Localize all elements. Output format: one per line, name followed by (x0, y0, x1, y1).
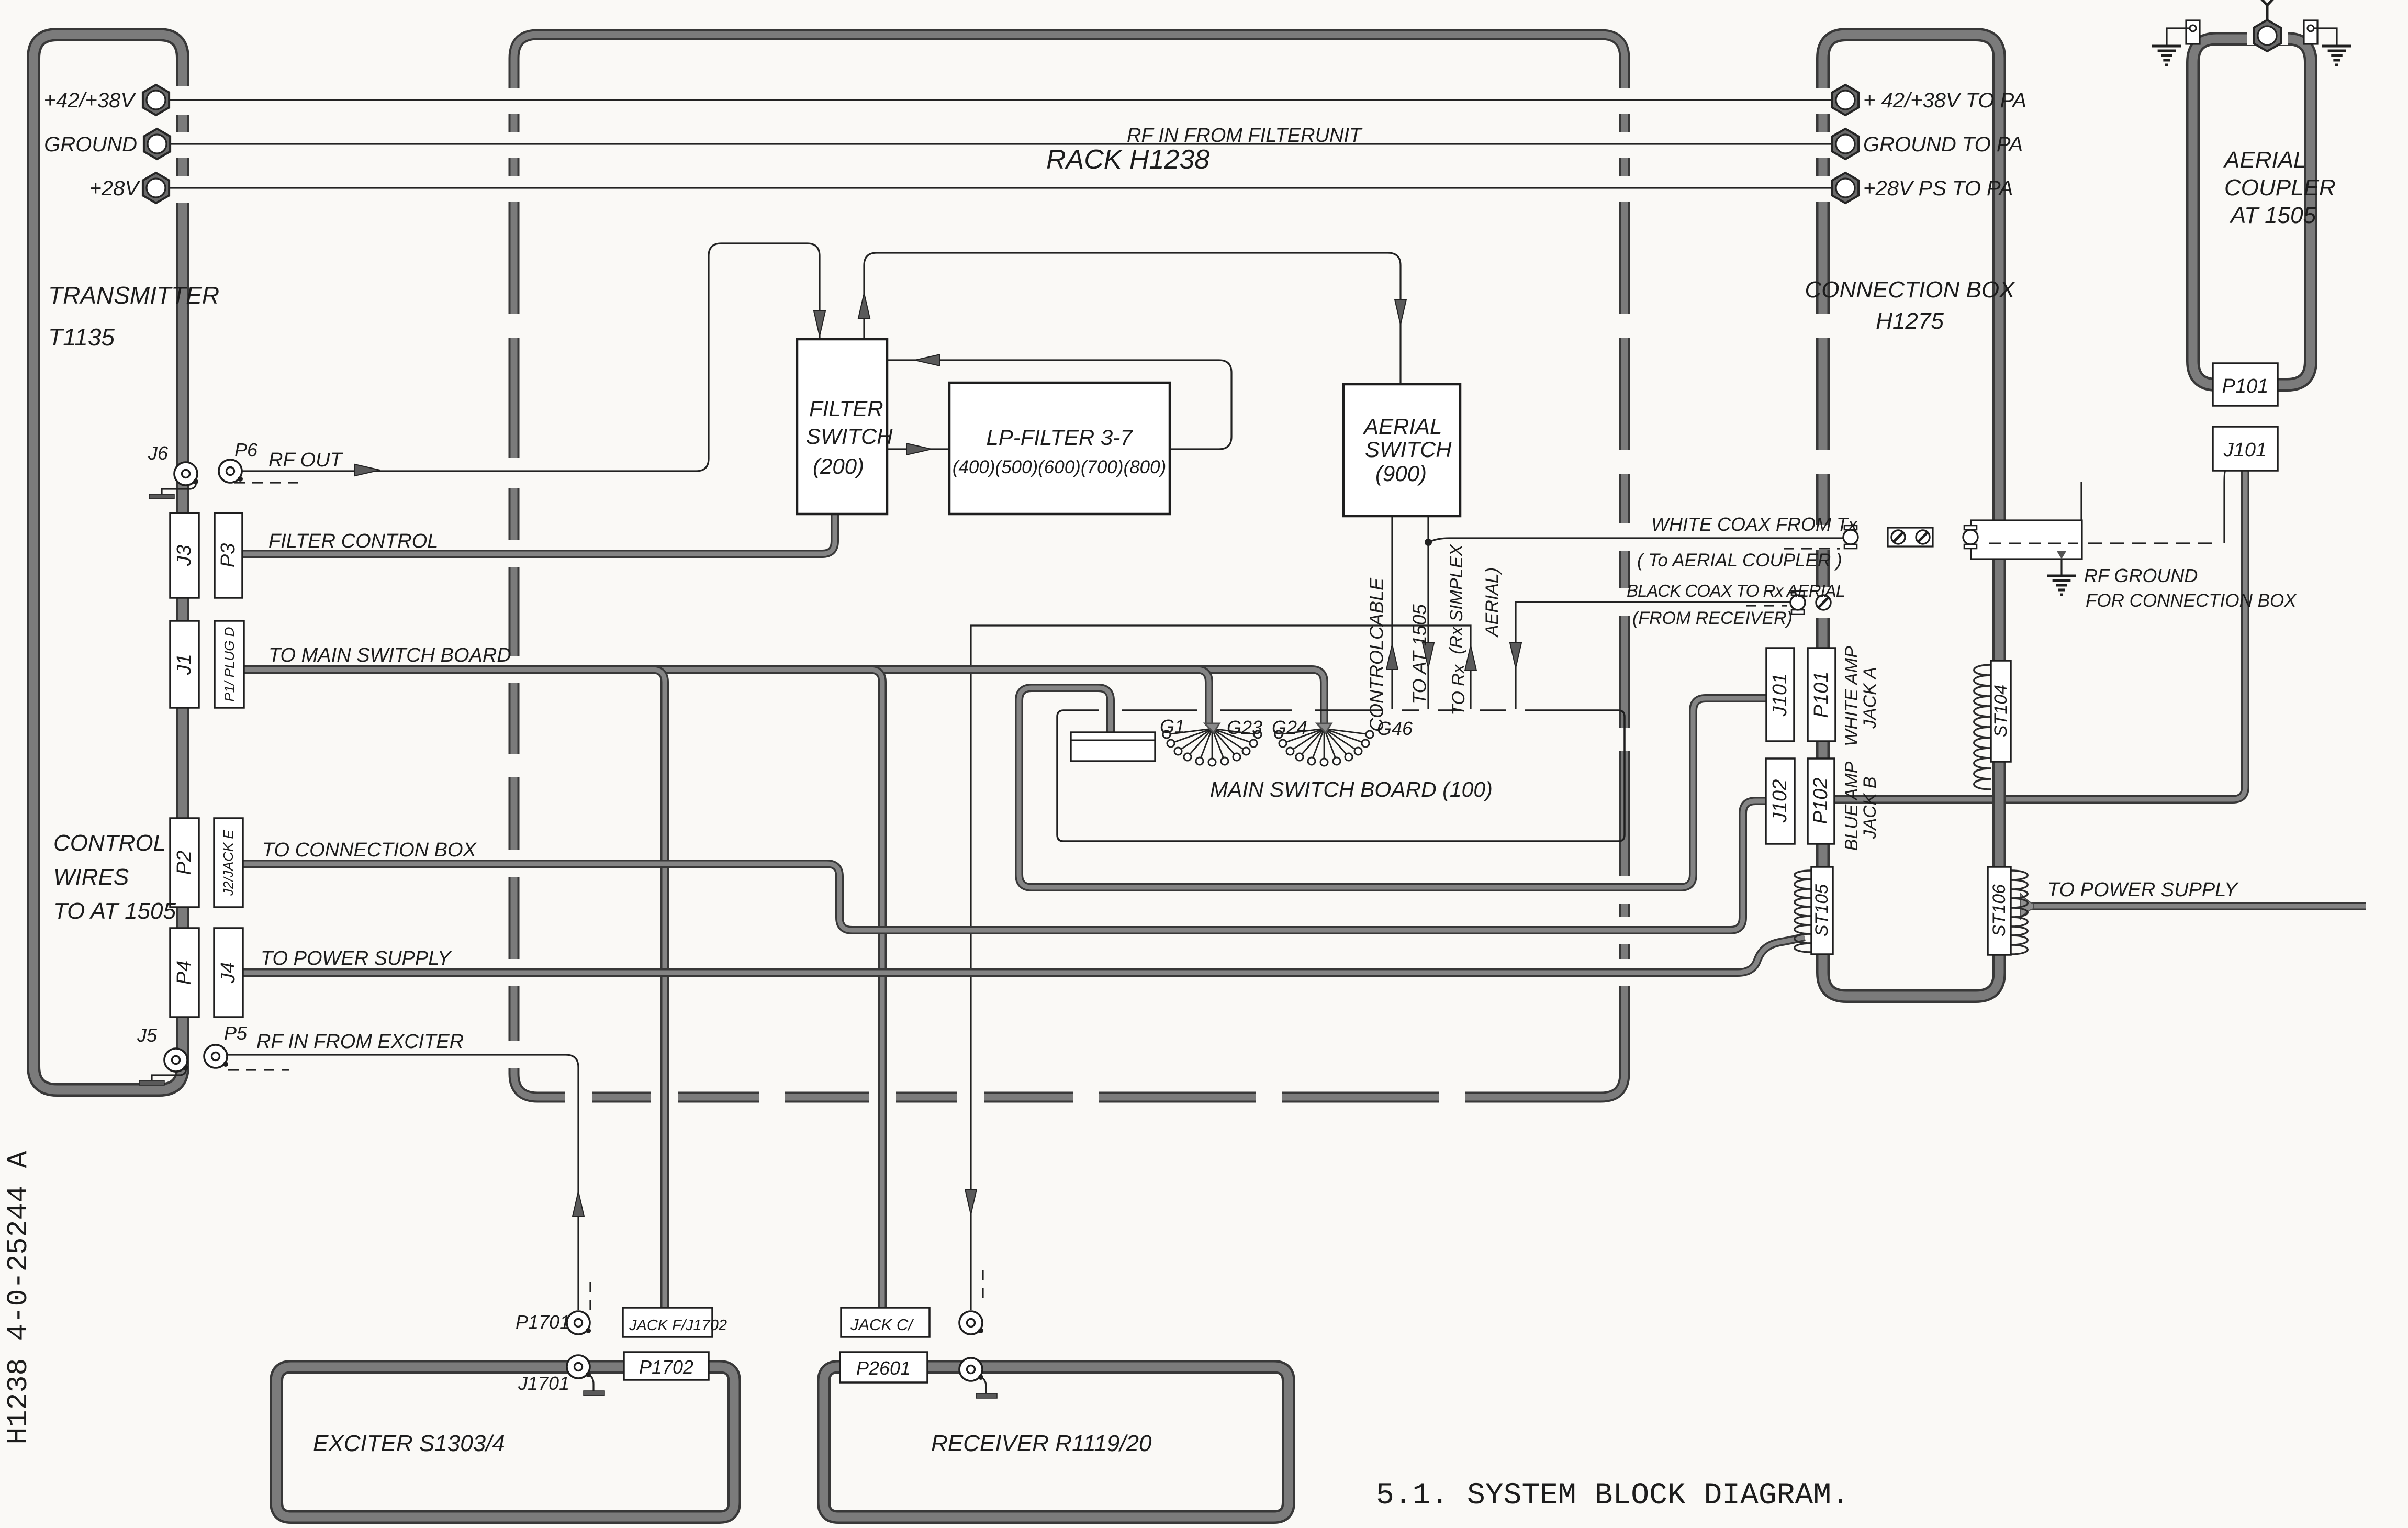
mounting tab right with ground (2304, 20, 2351, 65)
node fan-out G1-G23 (1160, 716, 1262, 766)
wire GROUND power line (163, 143, 1838, 144)
connector P1701 coax (567, 1311, 591, 1334)
svg-text:RF OUT: RF OUT (268, 449, 344, 471)
svg-text:J102: J102 (1769, 779, 1791, 823)
svg-text:SWITCH: SWITCH (1365, 437, 1452, 462)
svg-text:P6: P6 (234, 439, 258, 461)
svg-text:J3: J3 (173, 545, 195, 566)
label TO Rx (rotated) (1449, 664, 1469, 716)
connector J6 coax with ground (149, 462, 198, 499)
mounting tab left with ground (2152, 20, 2200, 65)
connection box H1275 bottom border (1823, 973, 1999, 996)
wire filter switch to LP-filter input (888, 443, 948, 455)
exciter box S1303/4 outline (276, 1367, 734, 1517)
wire dashed stub white coax (To AERIAL COUPLER) (1784, 548, 1840, 549)
connector coax flange on box wall (1963, 526, 1978, 549)
connector P102 (1808, 759, 1834, 844)
svg-text:P3: P3 (217, 543, 239, 567)
svg-text:GROUND TO PA: GROUND TO PA (1863, 133, 2023, 156)
svg-text:(FROM RECEIVER): (FROM RECEIVER) (1632, 608, 1793, 628)
wire dashed stub black coax (FROM RECEIVER) (1746, 605, 1787, 606)
connector J101 (1766, 648, 1794, 741)
connector J5 coax with ground (139, 1049, 188, 1085)
connector nut GROUND TO PA (1832, 129, 1858, 159)
connector receiver plug coax (959, 1311, 983, 1334)
svg-text:TRANSMITTER: TRANSMITTER (48, 282, 219, 309)
svg-text:(400)(500)(600)(700)(800): (400)(500)(600)(700)(800) (953, 457, 1167, 477)
label P6 RF OUT (234, 439, 344, 471)
connector J1 (170, 621, 199, 708)
connection box H1275 right border (1992, 58, 2006, 973)
svg-text:P1701: P1701 (516, 1311, 570, 1333)
svg-text:TO Rx: TO Rx (1449, 664, 1469, 716)
svg-text:ST105: ST105 (1812, 884, 1832, 936)
svg-text:J6: J6 (148, 442, 169, 464)
svg-text:WIRES: WIRES (53, 864, 129, 890)
svg-text:( To AERIAL COUPLER ): ( To AERIAL COUPLER ) (1637, 550, 1842, 571)
wire TO POWER SUPPLY from J4 to ST105 coil (243, 937, 1805, 973)
wire +42/+38V power line (163, 99, 1838, 101)
connector JACK C (841, 1308, 929, 1337)
svg-text:J101: J101 (1769, 673, 1791, 717)
svg-text:WHITE COAX FROM Tx: WHITE COAX FROM Tx (1651, 514, 1858, 535)
svg-text:SWITCH: SWITCH (806, 424, 893, 449)
svg-text:H1238 4-0-25244 A: H1238 4-0-25244 A (2, 1151, 35, 1444)
label TRANSMITTER T1135 (48, 282, 219, 351)
svg-text:P2601: P2601 (856, 1357, 911, 1379)
svg-text:+28V PS TO PA: +28V PS TO PA (1863, 177, 2013, 200)
connector nut +42/+38V (143, 85, 169, 115)
connection box H1275 top border (1823, 35, 1999, 58)
label CONTROL WIRES TO AT1505 (53, 830, 176, 924)
svg-text:FILTER: FILTER (809, 396, 883, 421)
label TO CONNECTION BOX (262, 839, 477, 861)
svg-text:COUPLER: COUPLER (2224, 175, 2336, 200)
svg-text:P4: P4 (173, 961, 195, 985)
label +42/+38V TO PA (1863, 89, 2026, 112)
label RF IN FROM FILTERUNIT (1127, 125, 1363, 147)
label RACK H1238 (1046, 144, 1209, 175)
main switch board (100) outline (1057, 710, 1625, 841)
connector P6 coax (219, 460, 243, 483)
svg-text:JACK C/: JACK C/ (850, 1315, 914, 1334)
label BLACK COAX TO Rx AERIAL (FROM RECEIVER) (1627, 581, 1845, 628)
svg-text:RECEIVER R1119/20: RECEIVER R1119/20 (931, 1431, 1152, 1456)
wire P102 to ST105 link (1817, 843, 1825, 868)
wire blue coax P102 to aerial coupler J101 (1833, 470, 2245, 799)
svg-text:P2: P2 (173, 851, 195, 875)
component feedthrough assembly (1971, 520, 2082, 559)
connector P101 (1808, 648, 1835, 741)
label GROUND (44, 133, 137, 156)
ground RF GROUND for connection box (2047, 551, 2076, 595)
svg-text:RACK H1238: RACK H1238 (1046, 144, 1209, 175)
svg-text:TO CONNECTION BOX: TO CONNECTION BOX (262, 839, 477, 861)
label BLUE AMP JACK B (rotated) (1842, 761, 1880, 851)
svg-text:P1/ PLUG D: P1/ PLUG D (221, 627, 237, 701)
label TO AT 1505 (rotated) (1409, 604, 1430, 704)
label EXCITER S1303/4 (313, 1431, 505, 1456)
LP-filter box (949, 383, 1170, 514)
svg-text:CONTROL: CONTROL (53, 830, 166, 856)
connector J1701 coax with ground (567, 1355, 604, 1396)
connector nut +28V PS TO PA (1832, 173, 1858, 203)
cable anchor ST105 with coil (1795, 867, 1833, 954)
svg-text:MAIN SWITCH BOARD (100): MAIN SWITCH BOARD (100) (1210, 777, 1493, 801)
wire RF IN FROM EXCITER: P5 to exciter P1701 (228, 1055, 584, 1310)
svg-text:JACK F/J1702: JACK F/J1702 (629, 1317, 727, 1334)
svg-text:TO AT 1505: TO AT 1505 (53, 898, 176, 924)
svg-text:+ 42/+38V TO PA: + 42/+38V TO PA (1863, 89, 2026, 112)
connector white coax bulkhead (1843, 526, 1858, 549)
svg-text:J1701: J1701 (518, 1373, 569, 1394)
svg-text:P101: P101 (2222, 375, 2269, 397)
wire dashed stub at P6 (234, 482, 304, 483)
aerial coupler AT1505 outline (2193, 39, 2311, 385)
svg-text:TO POWER SUPPLY: TO POWER SUPPLY (261, 947, 452, 969)
svg-text:5.1. SYSTEM BLOCK DIAGRAM.: 5.1. SYSTEM BLOCK DIAGRAM. (1376, 1479, 1850, 1513)
svg-text:(Rx SIMPLEX: (Rx SIMPLEX (1447, 544, 1466, 654)
wire main switch board connector block to connection box J101 (1019, 688, 1767, 887)
wire FILTER CONTROL from P3 to filter switch (242, 513, 835, 554)
wire RF IN FROM FILTERUNIT: filter switch to aerial switch (858, 253, 1406, 383)
wire white coax from aerial switch junction to connection box (1428, 538, 1843, 542)
label +28V (89, 177, 140, 200)
svg-text:+28V: +28V (89, 177, 140, 200)
label RECEIVER R1119/20 (931, 1431, 1152, 1456)
connection box H1275 left border (dashed) (1816, 58, 1830, 973)
transmitter box T1135 outline (33, 35, 183, 1090)
component in-line filter with two screws (1888, 528, 1933, 546)
connector P2601 (840, 1352, 927, 1382)
connector nut +42/+38V TO PA (1832, 85, 1858, 115)
label TO MAIN SWITCH BOARD (268, 644, 511, 666)
connector P1702 (624, 1352, 709, 1380)
svg-text:(900): (900) (1375, 461, 1427, 486)
svg-text:GROUND: GROUND (44, 133, 137, 156)
svg-text:G24: G24 (1272, 717, 1307, 738)
wire dashed stub at P5 (228, 1069, 289, 1070)
connector J2 / JACK E (214, 818, 243, 907)
svg-text:RF GROUND: RF GROUND (2084, 565, 2198, 586)
wire stub above feedthrough (2080, 482, 2082, 520)
svg-text:J2/JACK E: J2/JACK E (220, 829, 236, 896)
aerial switch (900) box (1343, 384, 1460, 516)
receiver box R1119/20 outline (824, 1367, 1289, 1517)
connector P101 aerial coupler plug (2213, 363, 2278, 406)
svg-text:CONNECTION BOX: CONNECTION BOX (1805, 277, 2016, 303)
svg-text:BLACK COAX TO Rx AERIAL: BLACK COAX TO Rx AERIAL (1627, 581, 1845, 600)
svg-text:P1702: P1702 (639, 1356, 693, 1378)
label J6 (148, 442, 169, 464)
node junction dot white coax branch (1425, 539, 1432, 546)
label +28V PS TO PA (1863, 177, 2013, 200)
connector nut +28V (143, 173, 169, 203)
label WHITE AMP JACK A (rotated) (1842, 646, 1880, 746)
wire black coax from connection box down to main switch board (1510, 602, 1790, 709)
main switch board connector block (1071, 732, 1155, 761)
svg-text:ST104: ST104 (1991, 685, 2011, 737)
svg-text:J1: J1 (173, 654, 195, 675)
svg-text:J5: J5 (137, 1024, 158, 1046)
label FILTER CONTROL (268, 530, 438, 552)
connector receiver jack coax with ground (959, 1358, 997, 1398)
rack H1238 bottom border (dashed) (514, 1074, 1625, 1097)
svg-text:RF IN FROM FILTERUNIT: RF IN FROM FILTERUNIT (1127, 125, 1363, 147)
connector nut aerial feed (2247, 20, 2288, 51)
wire control cable: main switch board to aerial switch (1386, 517, 1398, 709)
node fan-out G24-G46 (1272, 717, 1413, 766)
label +42/+38V (44, 89, 137, 112)
svg-text:P102: P102 (1810, 778, 1832, 824)
svg-text:J4: J4 (217, 962, 239, 984)
cable anchor ST106 with coil (1988, 867, 2028, 955)
wire white coax dashed continuation to aerial coupler J101 (1978, 542, 2212, 544)
label P1701 (516, 1311, 570, 1333)
wire +28V power line (163, 187, 1838, 188)
label P5 RF IN FROM EXCITER (224, 1022, 464, 1053)
svg-text:T1135: T1135 (48, 324, 115, 351)
wire aerial coupler J101 sense line (2224, 471, 2225, 543)
svg-text:TO MAIN SWITCH BOARD: TO MAIN SWITCH BOARD (268, 644, 511, 666)
rack H1238 top border (514, 35, 1625, 58)
label WHITE COAX FROM Tx (To AERIAL COUPLER) (1637, 514, 1858, 571)
svg-text:FOR CONNECTION BOX: FOR CONNECTION BOX (2086, 590, 2297, 611)
svg-text:G1: G1 (1160, 716, 1185, 737)
svg-text:CABLE: CABLE (1366, 577, 1387, 640)
svg-text:JACK A: JACK A (1860, 667, 1880, 729)
wire TO MAIN SWITCH BOARD from P1 with branches (244, 670, 1324, 1309)
connector P3 (215, 513, 242, 598)
svg-text:AERIAL: AERIAL (1362, 414, 1442, 439)
rack H1238 right border (dashed) (1619, 58, 1630, 1074)
wire TO AT1505 (Rx simplex aerial): aerial switch down to main switch board (1423, 517, 1434, 709)
connector nut GROUND (144, 129, 170, 159)
connector black coax screw on wall (1816, 595, 1831, 610)
label title 5.1. SYSTEM BLOCK DIAGRAM (1376, 1479, 1850, 1513)
label J1701 (518, 1373, 569, 1394)
wire dashed stub at receiver plug (982, 1270, 983, 1302)
svg-text:RF IN FROM EXCITER: RF IN FROM EXCITER (256, 1031, 464, 1053)
connector P4 (170, 928, 199, 1017)
wire feedback loop LP-filter output back to filter switch (888, 354, 1231, 449)
connector J102 (1766, 759, 1795, 844)
connector J3 (170, 513, 199, 598)
svg-text:FILTER CONTROL: FILTER CONTROL (268, 530, 438, 552)
svg-text:BLUE AMP: BLUE AMP (1842, 761, 1862, 851)
wire dashed stub at P1701 (589, 1282, 591, 1312)
wire TO POWER SUPPLY out of ST106 (2020, 893, 2366, 919)
connector P5 coax (204, 1045, 228, 1068)
svg-text:P101: P101 (1810, 672, 1832, 718)
label TO POWER SUPPLY (right) (2047, 879, 2239, 901)
connector black coax bulkhead (1790, 591, 1805, 614)
svg-text:G23: G23 (1227, 717, 1262, 738)
label AERIAL COUPLER AT 1505 (2223, 147, 2336, 228)
label GROUND TO PA (1863, 133, 2023, 156)
svg-text:CONTROL: CONTROL (1366, 640, 1387, 732)
filter switch (200) box (797, 339, 893, 514)
label margin H1238 4-0-25244 A (rotated) (2, 1151, 35, 1444)
svg-text:WHITE AMP: WHITE AMP (1842, 646, 1862, 746)
svg-text:EXCITER S1303/4: EXCITER S1303/4 (313, 1431, 505, 1456)
label RF GROUND FOR CONNECTION BOX (2084, 565, 2297, 611)
svg-text:TO POWER SUPPLY: TO POWER SUPPLY (2047, 879, 2239, 901)
antenna symbol (2253, 0, 2282, 22)
wire RF OUT from P6 to filter switch (238, 243, 825, 476)
connector JACK F / J1702 (623, 1308, 727, 1337)
connector J101 aerial coupler jack (2213, 427, 2278, 471)
svg-text:J101: J101 (2223, 439, 2267, 461)
connector P1 / PLUG D (215, 621, 244, 708)
svg-text:+42/+38V: +42/+38V (44, 89, 137, 112)
svg-text:H1275: H1275 (1876, 308, 1944, 334)
cable anchor ST104 with coil (1974, 661, 2011, 789)
svg-text:P5: P5 (224, 1022, 248, 1044)
wire TO Rx: main switch board up and left then down to receiver plug (965, 626, 1476, 1310)
label CONTROL CABLE (rotated) (1366, 577, 1387, 732)
svg-text:TO AT 1505: TO AT 1505 (1409, 604, 1430, 704)
label Rx SIMPLEX AERIAL (rotated) (1447, 544, 1502, 654)
connector P2 (170, 818, 199, 907)
svg-text:LP-FILTER 3-7: LP-FILTER 3-7 (986, 425, 1133, 450)
label CONNECTION BOX H1275 (1805, 277, 2016, 334)
connector J4 (214, 928, 243, 1017)
label TO POWER SUPPLY (261, 947, 452, 969)
svg-text:AERIAL): AERIAL) (1482, 567, 1502, 638)
svg-text:ST106: ST106 (1989, 884, 2009, 936)
rack H1238 left border (dashed) (509, 58, 520, 1074)
wire TO CONNECTION BOX from J2 to J102 (243, 801, 1767, 930)
svg-text:(200): (200) (813, 454, 864, 478)
wire P101 to P102 link (1817, 740, 1825, 760)
svg-text:JACK B: JACK B (1860, 776, 1880, 839)
svg-text:AERIAL: AERIAL (2223, 147, 2306, 173)
label J5 (137, 1024, 158, 1046)
svg-text:AT 1505: AT 1505 (2229, 203, 2316, 228)
